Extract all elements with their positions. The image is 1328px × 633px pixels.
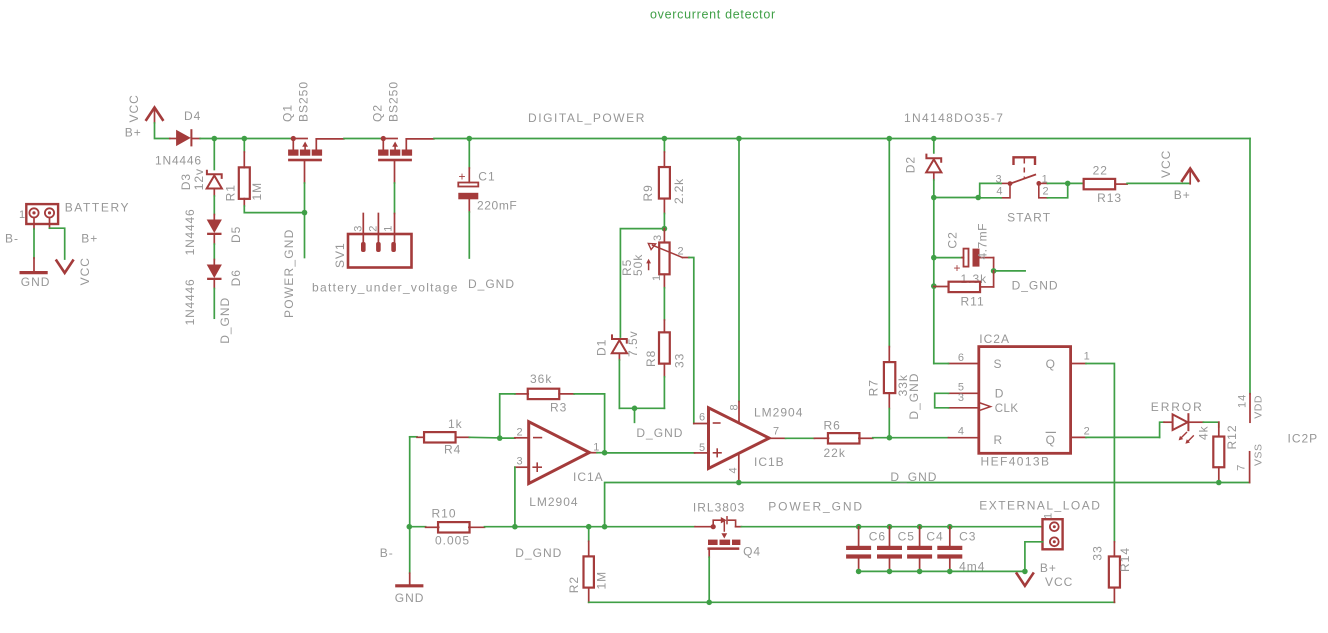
svg-text:B-: B- [380,546,394,560]
svg-text:1: 1 [1042,174,1049,186]
wire D3 to D5 [213,196,215,215]
svg-text:B+: B+ [125,126,142,140]
node junction R9 [662,136,668,142]
wire B+ to D4 [155,123,170,139]
svg-text:4k: 4k [1197,425,1211,440]
wire output to IC1B pin5 [605,452,695,454]
clock input triangle [979,403,991,411]
svg-text:ERROR: ERROR [1151,400,1204,414]
node B+ arrow VCC top-left [146,108,162,120]
wire IC2A pin4 R stub [949,437,979,439]
wire IC2A pin5 D stub [949,392,979,394]
svg-text:3: 3 [958,392,965,404]
svg-text:1N4446: 1N4446 [183,279,197,326]
svg-text:7: 7 [773,425,780,437]
svg-text:D: D [995,387,1005,401]
svg-text:33: 33 [673,353,687,368]
capacitor C2 4.7mF [934,257,962,259]
resistor R6 22k [814,437,828,439]
svg-text:R11: R11 [961,295,985,309]
potentiometer R5 50k [663,229,665,243]
supply VCC down arrow battery [57,261,73,273]
svg-text:D1: D1 [595,339,609,356]
wire R5 pin1 to R8 [663,288,665,320]
svg-text:22k: 22k [824,446,846,460]
svg-text:DIGITAL_POWER: DIGITAL_POWER [528,111,646,125]
svg-text:1N4446: 1N4446 [183,209,197,256]
capacitor C3 4m4 [947,524,953,530]
node junction B- rail [407,524,413,530]
wire junction to D1 column [620,229,664,337]
svg-text:1N4148DO35-7: 1N4148DO35-7 [904,111,1004,125]
IC2P pin 14 VDD [1249,394,1251,422]
svg-text:2: 2 [1043,186,1050,198]
wire bus right side down to VDD [1249,139,1251,394]
svg-text:D6: D6 [229,269,243,286]
svg-text:R1: R1 [224,184,238,201]
svg-text:3: 3 [652,234,664,241]
svg-text:R4: R4 [444,442,461,456]
svg-text:VCC: VCC [127,94,141,122]
svg-text:1: 1 [1084,351,1091,363]
node junction START R13 [1065,181,1071,187]
node junction bus R7 [887,136,893,142]
resistor R11 1.3k [934,286,949,288]
svg-text:4.7mF: 4.7mF [976,223,990,260]
node junction R11 [931,283,937,289]
svg-text:D4: D4 [184,109,201,123]
svg-text:D_GND: D_GND [468,277,515,291]
node junction R2 [586,524,592,530]
resistor R9 2.2k [663,139,665,153]
svg-text:CLK: CLK [995,403,1019,415]
svg-text:1k: 1k [448,417,463,431]
svg-text:BS250: BS250 [297,81,311,122]
svg-text:50k: 50k [631,254,645,276]
svg-text:5: 5 [699,442,706,454]
svg-text:D5: D5 [229,226,243,243]
connector BATTERY [26,204,58,224]
svg-text:C3: C3 [959,530,976,544]
svg-text:D_GND: D_GND [907,373,921,420]
wire Qbar to LED [1160,422,1164,437]
svg-text:3: 3 [995,174,1002,186]
wire IC2A pin2 Qbar out [1071,436,1086,438]
wire battery pin1 to GND [33,218,35,230]
diode D2 zener 1N4148 [933,139,935,153]
node junction Q4 gate [706,600,712,606]
svg-text:GND: GND [395,591,425,605]
svg-text:IC2P: IC2P [1288,431,1319,445]
svg-text:B+: B+ [81,231,98,245]
svg-text:R7: R7 [866,379,880,396]
transistor Q4 IRL3803 [711,524,716,529]
wire bus Q2 onward [434,138,1250,140]
svg-text:C5: C5 [898,530,915,544]
wire D6 to D_GND stub [213,289,215,319]
node junction C2 R11 D_GND [991,268,997,274]
svg-text:VCC: VCC [78,257,92,285]
node junction pin3 rail [512,524,518,530]
wire IC1B out pin7 to R6 [769,437,785,439]
wire load pin2 to VCC [1025,542,1043,572]
svg-text:2: 2 [1084,425,1091,437]
svg-text:2: 2 [517,427,524,439]
svg-text:4: 4 [728,466,740,473]
wire D_GND rail bottom [485,526,696,528]
svg-text:overcurrent detector: overcurrent detector [650,8,776,22]
wire POWER_GND rail [741,526,1042,528]
wire riser to D_GND rail [605,483,1250,527]
wire DIGITAL_POWER bus [200,138,293,140]
node junction pin4 D_GND [736,480,742,486]
wire D_GND rail D1/R8 [619,407,664,409]
resistor R3 36k feedback [515,393,528,395]
svg-text:220mF: 220mF [477,198,517,212]
supply VCC arrow B+ right [1182,169,1198,181]
resistor R8 33 [663,320,665,332]
svg-text:LM2904: LM2904 [529,495,578,509]
svg-text:S: S [994,357,1003,371]
svg-text:Q4: Q4 [743,545,761,559]
svg-text:R10: R10 [432,507,457,521]
wire IC1A output pin1 [589,452,597,454]
wire D5 to D6 [213,244,215,259]
wire pin5 stub [695,452,709,454]
svg-text:SV1: SV1 [333,242,347,268]
svg-text:33: 33 [1091,545,1105,560]
svg-text:1M: 1M [250,182,264,201]
svg-text:B-: B- [5,231,19,245]
op-amp IC1B LM2904 [709,408,770,469]
svg-text:R14: R14 [1118,547,1132,572]
svg-text:C2: C2 [946,231,960,248]
node junction bus D2 [931,136,937,142]
resistor R14 33 [1113,542,1115,557]
switch START [1014,157,1036,164]
svg-text:VCC: VCC [1159,150,1173,178]
node junction C1 [467,136,473,142]
svg-text:4: 4 [958,425,965,437]
resistor R10 0.005 shunt [409,526,425,528]
svg-text:R8: R8 [644,350,658,367]
wire LED to R12 [1203,422,1218,427]
svg-text:B+: B+ [1040,561,1057,575]
svg-text:GND: GND [21,275,51,289]
transistor Q2 BS250 [381,136,386,141]
svg-text:Q2: Q2 [371,104,385,122]
svg-text:LM2904: LM2904 [754,406,803,420]
svg-text:battery_under_voltage: battery_under_voltage [312,281,459,295]
svg-text:3: 3 [352,225,364,232]
diode D5 1N4446 [213,215,215,220]
resistor R13 22 [1068,182,1084,184]
svg-text:IRL3803: IRL3803 [693,500,745,514]
wire output to R3 top [604,394,606,453]
svg-text:IC2A: IC2A [979,332,1010,346]
svg-text:4: 4 [996,186,1003,198]
svg-text:D_GND: D_GND [636,426,683,440]
wire D CLK tie [935,393,949,408]
svg-text:0.005: 0.005 [435,534,470,548]
node junction D_GND riser [602,524,608,530]
svg-text:2: 2 [367,225,379,232]
svg-text:2.2k: 2.2k [672,178,686,204]
node junction C2 [931,255,937,261]
svg-text:D_GND: D_GND [1012,279,1059,293]
svg-text:BS250: BS250 [387,81,401,122]
wire D1 to D_GND rail [618,360,620,408]
wire bottom gate rail [589,601,1115,603]
svg-text:R12: R12 [1225,424,1239,449]
svg-text:HEF4013B: HEF4013B [981,455,1051,469]
capacitor C4 4m4 [917,524,923,530]
wire R4 B- sense column [409,437,411,527]
node junction R3 / R4 / pin2 [497,435,503,441]
svg-text:POWER_GND: POWER_GND [282,229,296,318]
svg-text:6: 6 [699,411,706,423]
wire IC2A pin1 Q out [1071,363,1086,365]
resistor R1 1M [243,139,245,153]
node junction bus pin8 [736,136,742,142]
node junction Q1 gate / R1 [302,210,308,216]
wire D2 column down [933,198,935,364]
LED ERROR [1164,421,1173,423]
node junction IC1A out [602,450,608,456]
node junction D3 [212,136,218,142]
svg-text:1.3k: 1.3k [961,272,988,286]
diode D6 1N4446 [213,260,215,265]
node junction R6 R7 pin4 [887,435,893,441]
IC2P pin 7 VSS [1249,452,1251,483]
diode D4 [170,138,176,140]
transistor Q1 BS250 [291,136,296,141]
svg-text:R6: R6 [824,418,841,432]
svg-text:D2: D2 [904,156,918,173]
svg-text:7.5v: 7.5v [626,330,640,357]
wire R1 to Q1 gate junction [244,206,304,213]
svg-text:C1: C1 [478,170,495,184]
svg-text:Q: Q [1046,357,1056,371]
svg-text:Q1: Q1 [281,104,295,122]
node junction R12 D_GND rail [1216,480,1222,486]
node junction D2 START [931,195,937,201]
wire pin3 down to D_GND rail [514,467,516,527]
svg-text:1N4446: 1N4446 [155,154,202,168]
wire pin4 to D_GND rail [738,454,740,483]
svg-text:EXTERNAL_LOAD: EXTERNAL_LOAD [979,499,1101,513]
resistor R4 1k [410,436,417,438]
svg-text:1M: 1M [595,571,609,590]
svg-text:1: 1 [19,209,26,221]
svg-text:1: 1 [383,225,395,232]
wire R3 left to pin2 junction [500,394,515,438]
wire junction to IC2A pin4 [889,437,948,439]
svg-text:R13: R13 [1097,191,1122,205]
capacitor C5 4m4 [887,524,893,530]
wire POWER_GND stub [304,213,306,258]
svg-text:+: + [459,170,467,184]
wire bus to D3 [213,139,215,170]
resistor R12 4k [1218,422,1220,436]
connector EXTERNAL_LOAD [1043,519,1063,549]
svg-text:7: 7 [1236,464,1248,471]
node junction START pins 3-4 [975,195,981,201]
ground GND R10 [397,584,422,587]
svg-text:2: 2 [678,245,685,257]
svg-text:R3: R3 [550,401,567,415]
svg-text:BATTERY: BATTERY [65,200,130,214]
svg-text:POWER_GND: POWER_GND [768,500,864,514]
svg-text:IC1B: IC1B [754,455,785,469]
wire Q2 gate to SV1 pin1 [394,161,396,183]
svg-text:C6: C6 [869,530,886,544]
svg-text:R9: R9 [641,184,655,201]
wire pin3 stub [515,466,529,468]
svg-text:3: 3 [517,456,524,468]
node junction load VCC [1022,569,1028,575]
wire D2 to START [934,197,978,199]
diode D3 zener 12v [207,170,222,179]
svg-text:1: 1 [1043,512,1055,519]
svg-text:VDD: VDD [1253,395,1265,419]
svg-text:1: 1 [651,274,663,281]
wire pin6 stub [694,423,709,425]
svg-text:Q: Q [1046,433,1056,447]
node junction R1 [242,136,248,142]
svg-text:START: START [1007,211,1051,225]
svg-text:D_GND: D_GND [218,297,232,344]
wire battery pin2 B+ to VCC [49,218,51,229]
svg-text:14: 14 [1237,394,1249,408]
svg-text:VCC: VCC [1045,575,1073,589]
svg-text:D_GND: D_GND [515,546,562,560]
supply VCC down arrow load [1017,574,1033,586]
svg-text:B+: B+ [1174,188,1191,202]
ground GND battery [21,271,46,274]
svg-text:22: 22 [1093,163,1108,177]
svg-text:36k: 36k [530,372,552,386]
svg-text:IC1A: IC1A [573,470,604,484]
wire R5 wiper pin2 down to IC1B pin6 [683,257,690,259]
connector SV1 battery_under_voltage [348,234,412,268]
wire S to D2 column [934,363,949,365]
wire IC2A pin3 CLK stub [949,407,979,409]
svg-text:R2: R2 [567,576,581,593]
wire bus Q1 to Q2 [344,138,383,140]
diode D1 zener 7.5v [612,334,627,343]
wire Q4 gate down [708,550,710,557]
wire caps bottom rail [859,570,1025,572]
wire IC2A pin6 S stub [949,363,979,365]
flip-flop IC2A HEF4013B [979,347,1071,454]
wire Q1 gate [304,161,306,183]
op-amp IC1A LM2904 [529,422,590,484]
resistor R7 33k [888,139,890,347]
node junction D_GND stub [632,406,638,412]
resistor R2 1M [588,527,590,542]
wire D_GND stub C2 [994,270,1026,272]
svg-text:VSS: VSS [1253,443,1265,466]
capacitor C1 220mF [468,139,470,169]
wire pin2 stub [500,437,515,439]
node junction R9 / R5 / D1 [662,226,668,232]
capacitor C6 4m4 [856,524,862,530]
wire pin8 supply from bus [738,139,740,402]
svg-text:D_GND: D_GND [890,470,937,484]
svg-text:6: 6 [958,352,965,364]
svg-text:C4: C4 [926,530,943,544]
svg-text:R: R [994,433,1004,447]
svg-text:12v: 12v [192,168,206,190]
wire B- to GND [409,527,411,574]
